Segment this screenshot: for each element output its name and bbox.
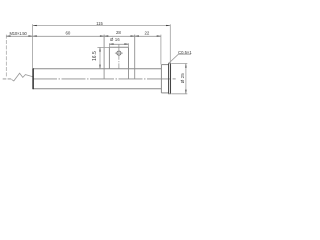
svg-text:16.5: 16.5 (92, 51, 98, 61)
svg-text:60: 60 (65, 31, 70, 36)
svg-text:M10×1.50: M10×1.50 (10, 31, 28, 36)
svg-text:28: 28 (116, 30, 121, 35)
svg-text:Ø 16: Ø 16 (110, 37, 120, 42)
svg-text:Ø 25: Ø 25 (180, 73, 185, 83)
svg-text:22: 22 (144, 31, 149, 36)
svg-text:C0.5×1: C0.5×1 (178, 50, 192, 55)
svg-text:115: 115 (96, 21, 103, 26)
